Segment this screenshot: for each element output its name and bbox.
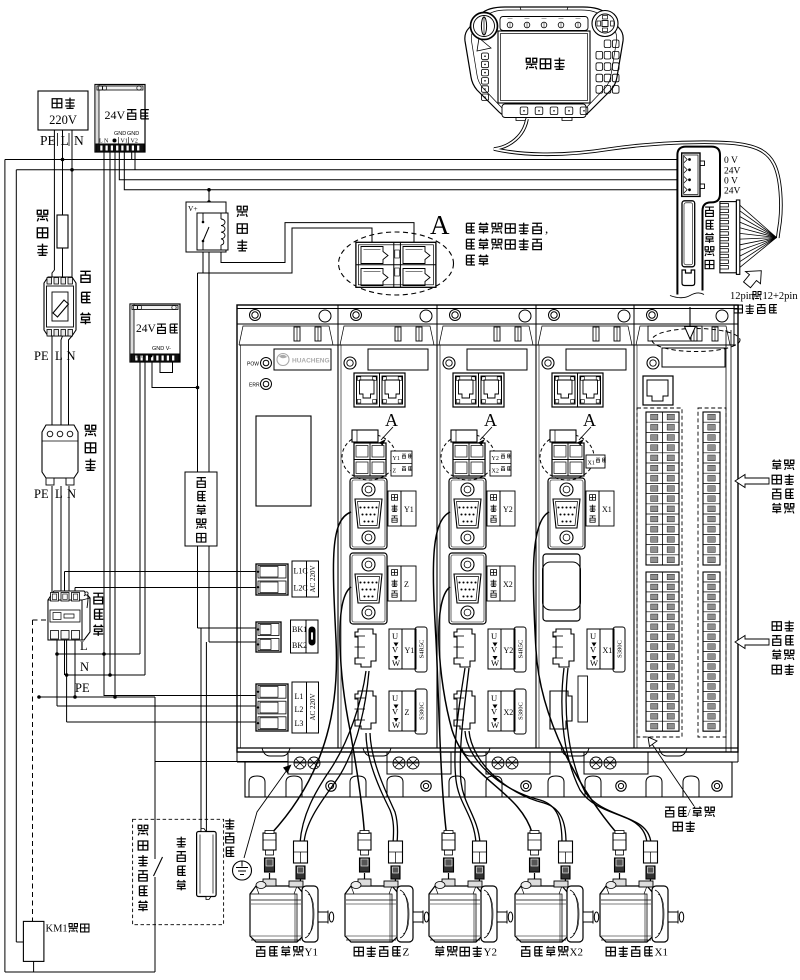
power cable M3 X2 to motor4 power plug [465, 731, 562, 843]
M5 injection output signal terminal block (right column) [698, 408, 726, 737]
wire 24V supply2 output to brake-line junction [152, 362, 198, 388]
encoder cable M2 Y1 to motor1 [271, 512, 351, 834]
svg-text:0 V: 0 V [724, 156, 738, 166]
PE L N labels after filter [34, 487, 76, 501]
24V power supply 2 [130, 304, 180, 362]
earth ground symbol [225, 819, 251, 880]
bus L [55, 652, 140, 656]
L N PE bus labels [75, 639, 90, 695]
svg-text:Z: Z [403, 947, 410, 959]
svg-text:Y2: Y2 [484, 947, 497, 959]
injection input signal port annotation [735, 460, 794, 514]
M4 encoder connector DB9 (X1) [548, 478, 585, 549]
svg-text:L N: L N [99, 139, 109, 145]
pendant port vertical label [705, 207, 714, 269]
svg-text:S4R5C: S4R5C [419, 640, 426, 659]
M3 motor power connector U V W (X2) [454, 689, 527, 734]
svg-text:X2: X2 [570, 947, 583, 959]
svg-text:KM1: KM1 [46, 924, 68, 935]
svg-text:X2: X2 [504, 708, 514, 717]
wire BK1 feed [198, 627, 257, 629]
svg-text:N: N [74, 133, 84, 148]
servo motor Y1 [250, 831, 334, 943]
M2 motor power connector U V W (Y1) [355, 627, 428, 672]
motor brake line label box [185, 472, 217, 546]
svg-text:V: V [491, 645, 498, 655]
relay [186, 202, 247, 252]
svg-text:V: V [392, 645, 399, 655]
servo motor label X1 [606, 946, 668, 958]
svg-text:L: L [61, 133, 69, 148]
wire KM1 coil to thermal switch chain [5, 877, 155, 972]
M4 detail-A callout letter and arrow [577, 410, 596, 446]
drive module divider lines [241, 345, 638, 748]
svg-text:Z: Z [404, 580, 409, 589]
M1 blank front rectangle [256, 416, 311, 506]
svg-text:S380C: S380C [419, 702, 426, 720]
encoder cable M3 X2 to motor4 [439, 587, 533, 834]
drive top mounting flange holes and clips [237, 305, 734, 345]
bus N [65, 673, 145, 677]
servo motor Z [345, 831, 429, 943]
pendant key switch knob [471, 13, 498, 40]
12pin fan-out wires [740, 205, 777, 267]
svg-text:BK1: BK1 [292, 625, 307, 634]
braking resistor [177, 829, 216, 900]
M3 encoder label X2 [487, 566, 515, 601]
PE L N labels after breaker [34, 349, 76, 363]
svg-text:A: A [385, 410, 398, 430]
svg-text:L1: L1 [295, 692, 304, 701]
svg-text:X1: X1 [655, 947, 668, 959]
M2 encoder connector DB9 (Y1) [350, 478, 387, 549]
input/output port annotation [648, 737, 714, 831]
circuit breaker [44, 271, 91, 336]
encoder cable M3 Y2 to motor3 [433, 512, 450, 834]
wire N from source through breaker [69, 130, 73, 436]
M1 connector BK1/BK2 (brake resistor port) [256, 620, 318, 653]
svg-text:X2: X2 [492, 469, 499, 475]
wire relay coil to detail-A connector right terminal [221, 223, 414, 263]
svg-text:U: U [491, 693, 497, 703]
12pin label text [730, 291, 798, 313]
wire N tap to far-left control feed [16, 168, 73, 942]
M4 unused encoder cutout [543, 554, 581, 621]
svg-text:V1: V1 [121, 139, 128, 145]
pendant top button strip [500, 17, 588, 31]
12pin terminal connector [720, 200, 740, 274]
encoder cable M4 X1 to motor5 [533, 512, 617, 834]
M3 detail-A callout letter and arrow [478, 410, 497, 446]
svg-text:A: A [484, 410, 497, 430]
wires filter output to contactor [52, 486, 69, 592]
fuse [37, 210, 68, 255]
M4 unused power connector cutout [550, 676, 588, 729]
M3 motor power connector U V W (Y2) [454, 627, 527, 672]
detail A annotation text [466, 221, 548, 266]
thermal switch dashed enclosure [133, 819, 224, 924]
svg-text:U: U [590, 631, 596, 641]
svg-text:PE: PE [40, 133, 56, 148]
servo drive module M3 face [443, 349, 527, 370]
encoder cable M2 Z to motor2 [340, 587, 365, 834]
KM1 coil box [23, 921, 89, 961]
wire relay switch to brake-line and junction [196, 250, 203, 628]
svg-text:24V: 24V [136, 323, 157, 335]
filter [42, 425, 96, 485]
svg-text:L2C: L2C [294, 584, 308, 593]
M2 encoder label Y1 [388, 491, 416, 526]
svg-text:12+2pin: 12+2pin [763, 291, 799, 302]
svg-text:Z: Z [405, 708, 410, 717]
M2 RJ45 communication ports [354, 373, 405, 407]
wires braking resistor leads [201, 628, 206, 833]
svg-text:L: L [55, 349, 63, 363]
svg-text:U: U [392, 693, 398, 703]
svg-text:X1: X1 [602, 505, 612, 514]
svg-text:V2: V2 [131, 139, 138, 145]
arrow pendant cable into IO module [648, 307, 740, 352]
wire PE jog down to drive ground [155, 697, 288, 828]
svg-text:V: V [392, 707, 399, 717]
svg-text:Y2: Y2 [503, 505, 513, 514]
svg-text:12pin: 12pin [730, 291, 755, 302]
svg-text:L N: L N [136, 354, 146, 360]
pendant screen [498, 31, 590, 103]
svg-text:S380C: S380C [617, 640, 624, 658]
wires 24V supply1 mains input risers [104, 152, 115, 697]
svg-text:V+: V+ [188, 204, 198, 213]
pendant port panel outline [670, 147, 720, 298]
svg-text:Y2: Y2 [492, 456, 499, 462]
I/O module M5 face [647, 348, 725, 369]
pendant cable [494, 119, 781, 238]
servo motor Y2 [429, 831, 513, 943]
wire BK2 feed [209, 641, 256, 643]
M1 connector L1/L2/L3 [256, 682, 319, 733]
pendant left button column [477, 38, 491, 101]
svg-text:AC 220V: AC 220V [309, 565, 317, 592]
svg-text:V: V [590, 645, 597, 655]
contactor [48, 591, 103, 640]
svg-text:S380C: S380C [518, 702, 525, 720]
dashed control link contactor to KM1 [33, 620, 47, 921]
svg-text:24V: 24V [724, 187, 741, 197]
svg-text:BK2: BK2 [292, 641, 307, 650]
svg-text:U: U [491, 631, 497, 641]
M4 motor power connector U V W (X1) [553, 627, 626, 672]
M2 motor power connector U V W (Z) [355, 689, 428, 734]
svg-text:HUACHENG: HUACHENG [292, 358, 330, 365]
wires 24V supply1 outputs to pendant port [5, 152, 690, 190]
svg-text:X1: X1 [588, 461, 595, 467]
wire L1 feed [104, 654, 256, 696]
M2 brake control terminal (detail A) [342, 430, 396, 480]
power cable M3 Y2 to motor3 power plug [455, 668, 476, 843]
M3 encoder connector DB9 (X2) [449, 553, 486, 624]
pendant port slot [682, 201, 695, 286]
detail A enlarged brake connector [339, 232, 454, 295]
M4 encoder label X1 [586, 491, 614, 526]
svg-text:L: L [55, 487, 63, 501]
wires contactor output to bus [57, 640, 75, 722]
power cable M4 X1 to motor5 power plug [562, 668, 647, 843]
wire relay V+ rail down through brake line to BK2 [208, 202, 210, 642]
svg-text:PE: PE [34, 349, 49, 363]
svg-text:N: N [67, 349, 76, 363]
M5 injection input signal terminal block (left column) [637, 408, 682, 737]
wire PE from source down left side [52, 130, 54, 436]
wire L2 feed [57, 705, 256, 707]
svg-text:Y1: Y1 [305, 947, 318, 959]
servo motor label X2 [521, 946, 583, 958]
servo motor label Y2 [435, 946, 497, 958]
arrow to 12pin connector [744, 271, 762, 288]
thermal switch symbol [154, 828, 163, 876]
svg-text:,: , [545, 221, 548, 236]
svg-text:L3: L3 [295, 719, 304, 728]
M4 RJ45 communication ports [552, 373, 603, 407]
single-phase 220V source box [38, 91, 88, 130]
svg-text:ERR: ERR [249, 383, 260, 389]
svg-text:GND: GND [127, 131, 139, 137]
servo drive module M4 face [542, 349, 626, 370]
svg-text:Y1: Y1 [393, 456, 400, 462]
M2 encoder label Z [388, 566, 416, 601]
M2 brake label box [391, 451, 412, 476]
jumper loop under 24V supply2 [160, 362, 173, 373]
svg-text:L2: L2 [295, 705, 304, 714]
svg-text:Y2: Y2 [504, 646, 514, 655]
M3 RJ45 communication ports [453, 373, 504, 407]
svg-text:S4R5C: S4R5C [518, 640, 525, 659]
bus PE [37, 695, 155, 699]
svg-text:N: N [80, 660, 89, 674]
M3 encoder connector DB9 (Y2) [449, 478, 486, 549]
wire L2C feed [75, 588, 256, 698]
wires 24V supply2 mains inputs [140, 362, 145, 675]
pendant bottom button strip [502, 104, 588, 118]
wire L1C feed [65, 572, 257, 676]
svg-text:A: A [430, 210, 450, 240]
svg-text:Y1: Y1 [405, 646, 415, 655]
svg-text:0 V: 0 V [724, 177, 738, 187]
svg-text:AC 220V: AC 220V [309, 693, 317, 720]
M4 brake label box [586, 455, 606, 468]
svg-text:PE: PE [34, 487, 49, 501]
M1 connector L1C/L2C [256, 561, 319, 597]
svg-text:L: L [80, 639, 88, 653]
servo motor X2 [515, 831, 599, 943]
pendant port 4-pin power connector [682, 153, 705, 196]
pendant right keypad [596, 40, 619, 93]
wire KM1 coil from N [16, 941, 23, 943]
M3 brake control terminal (detail A) [441, 430, 495, 480]
M3 encoder label Y2 [487, 491, 515, 526]
svg-text:N: N [67, 487, 76, 501]
wire L tap to far-left control feed [5, 158, 64, 972]
svg-text:A: A [583, 410, 596, 430]
power cable M2 Y1 to motor1 power plug [300, 671, 366, 843]
svg-text:24V: 24V [724, 167, 741, 177]
drive bottom flange and mounting plate [237, 748, 738, 797]
svg-text:X1: X1 [603, 646, 613, 655]
servo motor X1 [600, 831, 684, 943]
svg-text:PE: PE [75, 681, 90, 695]
servo motor label Y1 [256, 946, 318, 958]
wire L from source through fuse and breaker [61, 130, 63, 436]
M2 detail-A callout letter and arrow [379, 410, 398, 446]
PE L N labels under source [40, 133, 84, 148]
24V power supply 1 [95, 85, 149, 153]
drive power module M1 face [247, 358, 272, 390]
M2 encoder connector DB9 (Z) [350, 553, 387, 624]
svg-text:Z: Z [393, 469, 397, 475]
svg-text:V: V [491, 707, 498, 717]
pendant joystick [592, 11, 618, 37]
wire L3 feed [67, 721, 256, 723]
svg-text:X2: X2 [503, 580, 513, 589]
servo drive unit outer frame [237, 305, 738, 752]
power cable M2 Z to motor2 power plug [366, 733, 394, 843]
svg-text:U: U [392, 631, 398, 641]
M3 brake label box [490, 451, 511, 476]
svg-text:220V: 220V [49, 113, 77, 127]
pendant port labels 0V 24V [724, 156, 741, 197]
drive grounding screw blocks [288, 752, 648, 774]
servo motor label Z [354, 946, 409, 958]
svg-text:POW: POW [247, 362, 259, 368]
servo drive module M2 face [344, 349, 428, 370]
svg-text:Y1: Y1 [404, 505, 414, 514]
M5 RJ45 port [643, 376, 673, 405]
arrow ground to drive [244, 765, 292, 859]
svg-text:L1C: L1C [294, 567, 308, 576]
pendant handheld controller body [465, 7, 623, 121]
svg-text:GND: GND [114, 131, 126, 137]
svg-text:24V: 24V [105, 108, 126, 122]
wire 24V tap to relay V+ [207, 188, 211, 204]
wire relay to detail-A connector left terminal [203, 228, 372, 273]
injection output signal port annotation [735, 621, 794, 675]
svg-text:GND V-: GND V- [152, 346, 171, 352]
M4 brake control terminal (detail A) [540, 430, 594, 480]
HUACHENG logo [274, 349, 331, 370]
